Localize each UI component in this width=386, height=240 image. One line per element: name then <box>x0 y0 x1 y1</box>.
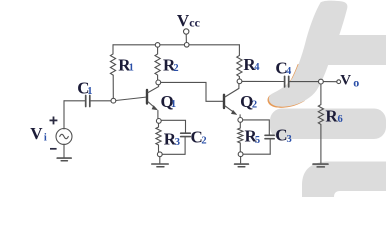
watermark gray band bottom right <box>302 162 386 198</box>
resistor R6 <box>318 84 323 163</box>
top rail wire <box>113 44 239 46</box>
wire source to ground <box>63 144 65 157</box>
svg-text:V: V <box>30 124 43 143</box>
node rail Vcc <box>184 43 189 48</box>
svg-text:1: 1 <box>87 86 92 97</box>
wire R1 to base node <box>112 75 114 98</box>
terminal Vcc <box>184 29 189 34</box>
wire collector row to C4 <box>242 80 284 82</box>
node output <box>319 79 324 84</box>
ground under Vi <box>57 157 71 159</box>
svg-text:V: V <box>177 11 190 30</box>
svg-text:2: 2 <box>173 63 178 74</box>
resistor R3 <box>156 123 161 152</box>
ground under R5 <box>240 157 242 163</box>
svg-text:V: V <box>340 73 351 89</box>
capacitor C4 <box>284 76 286 87</box>
svg-text:4: 4 <box>254 62 260 73</box>
svg-text:cc: cc <box>189 15 200 29</box>
wire source vertical <box>63 101 65 129</box>
emitter arrow Q1 <box>152 105 158 110</box>
svg-text:R: R <box>325 107 338 126</box>
svg-text:4: 4 <box>286 66 292 77</box>
node collector Q2 <box>237 79 242 84</box>
capacitor C1 <box>85 96 87 107</box>
capacitor C3 <box>265 134 274 136</box>
svg-text:3: 3 <box>175 137 180 148</box>
node emitter Q1 <box>156 119 161 124</box>
transistor Q1 <box>146 90 148 104</box>
wire input row from source to C1 <box>64 100 85 102</box>
watermark white notch bottom right <box>334 191 386 197</box>
svg-text:i: i <box>44 132 47 143</box>
node rail R2 <box>155 43 160 48</box>
transistor Q2 <box>223 95 225 108</box>
ground under R6 <box>313 163 328 165</box>
wire C1 to base node <box>91 100 111 102</box>
minus sign <box>50 148 57 150</box>
resistor R4 <box>237 45 242 79</box>
wire C4 to output node <box>290 81 319 83</box>
svg-text:2: 2 <box>201 135 206 146</box>
node emitter Q2 <box>238 118 243 123</box>
wire stage1 bottom <box>162 153 185 155</box>
wire stage2 bottom <box>243 153 270 155</box>
emitter arrow Q2 <box>231 110 237 115</box>
source Vi circle <box>56 129 72 145</box>
wire node to Vo terminal <box>323 81 337 83</box>
capacitor C2 <box>181 132 191 134</box>
watermark gray swoosh <box>269 1 348 107</box>
wire Vcc drop <box>185 34 187 42</box>
node stage2 bottom <box>238 152 243 157</box>
resistor R5 <box>238 122 243 152</box>
wire stage1 emitter top <box>161 120 185 132</box>
watermark gray band middle right <box>270 109 386 140</box>
svg-text:o: o <box>353 75 359 89</box>
terminal Vo <box>337 80 341 84</box>
wire stage2 emitter top <box>243 120 270 135</box>
resistor R2 <box>155 47 160 80</box>
watermark gray band upper right <box>315 35 386 65</box>
svg-text:2: 2 <box>252 99 257 110</box>
wire base Q1 <box>116 97 147 101</box>
svg-text:3: 3 <box>287 134 292 145</box>
resistor R1 <box>110 45 115 75</box>
node stage1 bottom <box>157 152 162 157</box>
plus sign <box>50 117 58 125</box>
node base Q1 <box>111 98 116 103</box>
node collector Q1 <box>156 80 161 85</box>
svg-text:1: 1 <box>129 62 134 73</box>
wire coupling stage1 to Q2 <box>161 82 223 101</box>
svg-text:5: 5 <box>255 135 260 146</box>
ground under R3 <box>159 157 161 164</box>
svg-text:6: 6 <box>338 114 343 125</box>
svg-text:1: 1 <box>171 99 176 110</box>
